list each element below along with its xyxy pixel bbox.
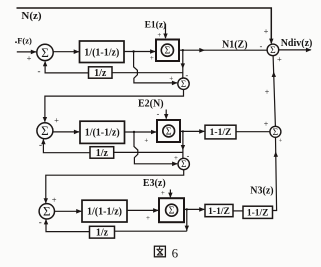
block D2 1-1/Z xyxy=(205,125,236,139)
svg-text:Σ: Σ xyxy=(169,206,175,217)
top summer ST xyxy=(267,44,279,56)
svg-text:E1(z): E1(z) xyxy=(145,20,167,31)
svg-text:-: - xyxy=(38,66,41,76)
svg-text:6: 6 xyxy=(172,246,179,261)
svg-text:N1(Z): N1(Z) xyxy=(222,40,248,51)
wire S1 to integrator block A1 xyxy=(53,49,79,54)
wire Q2 output to differentiator D2 xyxy=(180,129,205,134)
svg-text:1-1/Z: 1-1/Z xyxy=(210,128,232,138)
wire feedback tap to 1/z block Z2 xyxy=(114,151,183,153)
svg-text:+: + xyxy=(264,119,269,128)
svg-text:1/z: 1/z xyxy=(96,148,109,159)
wire A3 output to quantizer Q3 xyxy=(127,208,159,213)
wire F(z) input into summer S1 xyxy=(17,50,37,55)
quantizer Q3 (square with circle sum) xyxy=(159,198,184,222)
wire node A1 down with hop over 1/z line to error summer E-S1 xyxy=(134,52,178,86)
svg-text:+: + xyxy=(265,88,270,97)
wire A1 output to quantizer Q1 with node A1 xyxy=(124,49,156,54)
svg-text:E3(z): E3(z) xyxy=(143,178,166,189)
svg-text:+: + xyxy=(174,154,178,162)
svg-text:F(z): F(z) xyxy=(17,35,32,45)
wire error1 to stage2 summer S2 xyxy=(43,89,184,122)
svg-text:+: + xyxy=(157,31,161,39)
svg-text:1/(1-1/z): 1/(1-1/z) xyxy=(84,47,119,58)
svg-text:Ndiv(z): Ndiv(z) xyxy=(281,38,313,49)
svg-text:1/z: 1/z xyxy=(94,68,107,79)
svg-text:1/(1-1/z): 1/(1-1/z) xyxy=(85,128,120,139)
svg-text:-: - xyxy=(39,140,42,150)
wire error2 to stage3 summer S3 xyxy=(44,170,184,204)
middle summer SM xyxy=(270,126,281,137)
wire D2 to middle summer xyxy=(236,131,270,133)
svg-text:+: + xyxy=(144,137,148,145)
wire node B2 drop to error summer E-S2 xyxy=(181,131,185,158)
wire E1(z) arrow into Q1 xyxy=(163,24,167,39)
svg-text:Σ: Σ xyxy=(43,204,51,219)
wire Z3 output up into S3 minus xyxy=(44,219,90,232)
block A2 1/(1-1/z) xyxy=(80,121,125,143)
svg-text:+: + xyxy=(146,214,150,222)
block Z1 1/z xyxy=(89,67,113,78)
svg-text:+: + xyxy=(150,54,154,62)
wire middle summer up to top summer xyxy=(272,56,276,127)
svg-text:Σ: Σ xyxy=(181,79,186,89)
error summer E-S1 xyxy=(178,78,189,89)
summing junction S1 xyxy=(37,44,53,60)
svg-text:-: - xyxy=(187,152,190,161)
summing junction S2 xyxy=(37,123,53,139)
svg-text:+: + xyxy=(277,54,282,64)
svg-text:Σ: Σ xyxy=(273,128,279,138)
wire Z2 output up into S2 minus xyxy=(41,139,90,153)
wire A2 output to quantizer Q2 with node A2 xyxy=(125,130,157,135)
svg-text:+: + xyxy=(52,194,57,204)
block D3b 1-1/Z xyxy=(243,206,273,218)
svg-text:+: + xyxy=(54,115,59,125)
svg-text:1/(1-1/z): 1/(1-1/z) xyxy=(87,207,122,218)
block D3a 1-1/Z xyxy=(205,204,233,216)
svg-text:1-1/Z: 1-1/Z xyxy=(247,209,269,219)
svg-text:-: - xyxy=(39,217,42,227)
quantizer Q1 (square with circle sum) xyxy=(156,40,179,62)
wire E3(z) arrow into Q3 xyxy=(168,190,172,199)
wire S2 to block A2 xyxy=(53,130,80,135)
block A3 1/(1-1/z) xyxy=(82,200,127,222)
svg-text:+: + xyxy=(264,26,269,36)
svg-text:N3(z): N3(z) xyxy=(250,186,273,197)
svg-text:Σ: Σ xyxy=(181,159,186,169)
wire node A2 down with hop to error summer E-S2 xyxy=(134,132,178,166)
svg-text:+: + xyxy=(279,138,283,145)
svg-text:+: + xyxy=(169,74,173,82)
svg-text:Σ: Σ xyxy=(166,126,172,137)
wire E2(N) arrow into Q2 xyxy=(164,110,168,120)
caption glyph tu (figure) xyxy=(154,246,165,257)
block Z3 1/z xyxy=(90,226,115,238)
svg-text:E2(N): E2(N) xyxy=(138,99,164,110)
svg-text:+: + xyxy=(27,53,32,63)
svg-text:Σ: Σ xyxy=(164,46,170,57)
wire Z1 output up into S1 minus xyxy=(43,61,89,73)
wire top rail N(z) to top summer xyxy=(17,8,274,44)
svg-text:Σ: Σ xyxy=(41,123,49,138)
block A1 1/(1-1/z) xyxy=(80,41,125,63)
wire feedback to 1/z block Z3 xyxy=(115,230,187,232)
wire N3 up to middle summer xyxy=(273,138,279,211)
svg-text:-: - xyxy=(157,109,160,118)
svg-text:N(z): N(z) xyxy=(21,10,41,22)
svg-text:Σ: Σ xyxy=(41,45,49,60)
svg-text:Σ: Σ xyxy=(270,46,276,56)
svg-text:-: - xyxy=(260,42,263,51)
wire S3 to block A3 xyxy=(55,209,82,214)
error summer E-S2 xyxy=(178,158,189,169)
svg-text:1-1/Z: 1-1/Z xyxy=(208,207,230,217)
svg-text:+: + xyxy=(161,189,165,197)
summing junction S3 xyxy=(39,204,54,219)
wire Ndiv output xyxy=(279,48,312,53)
wire feedback tap to 1/z block Z1 xyxy=(112,72,183,74)
wire Q3 output to differentiator D3a xyxy=(184,207,205,212)
svg-text:1/z: 1/z xyxy=(96,228,109,239)
block Z2 1/z xyxy=(90,147,114,159)
wire N1 output Q1 to top summer xyxy=(179,48,267,53)
wire node B1 drop to error summer E-S1 xyxy=(181,50,185,78)
wire node B3 drop to feedback xyxy=(185,209,189,231)
wire D3a to D3b xyxy=(233,210,243,212)
quantizer Q2 (square with circle sum) xyxy=(157,120,180,142)
